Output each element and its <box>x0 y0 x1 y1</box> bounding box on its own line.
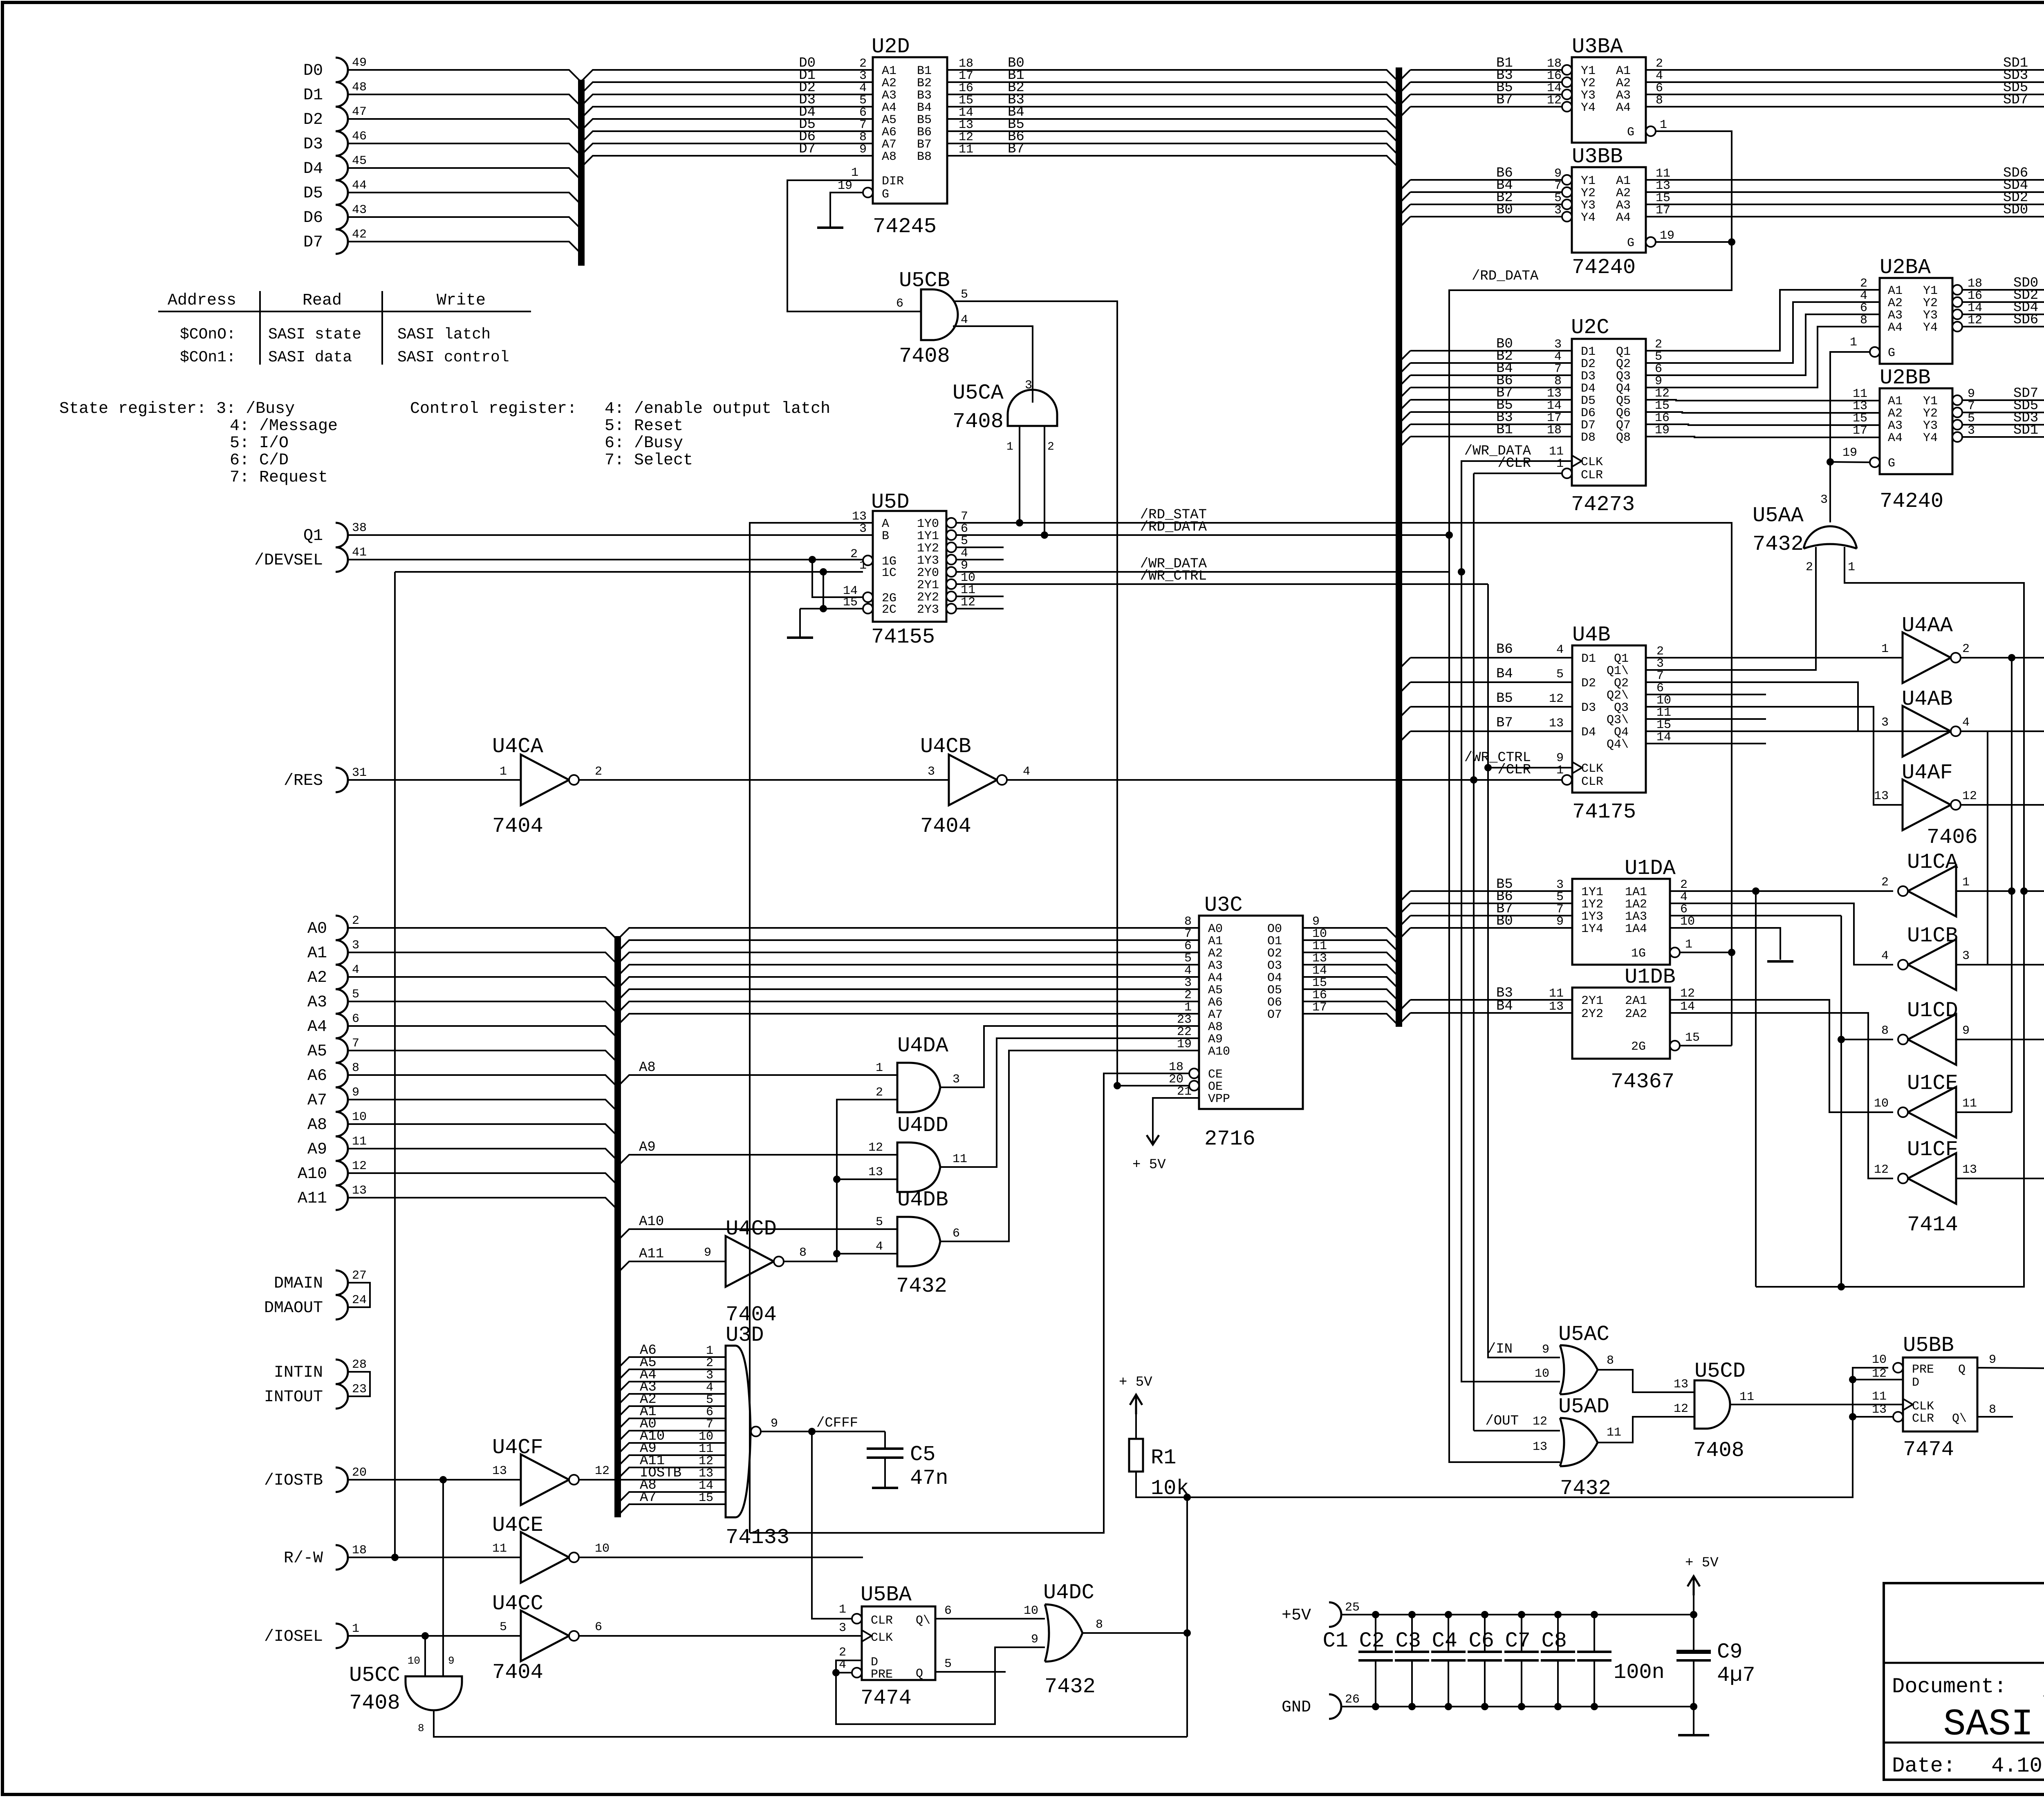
svg-text:A1: A1 <box>1616 64 1631 78</box>
svg-text:10: 10 <box>1656 694 1671 708</box>
wire bus exit U2C D7 <box>1399 424 1410 436</box>
svg-text:9: 9 <box>1031 1633 1038 1646</box>
svg-text:SASI Interface Card: SASI Interface Card <box>1943 1703 2044 1746</box>
wire U1CB in to C/D <box>1956 964 2044 965</box>
connector pin A7 (pin 9) <box>307 1086 359 1112</box>
wire U1DA in 3 <box>1410 915 1572 916</box>
svg-text:16: 16 <box>959 81 973 95</box>
svg-text:G: G <box>882 188 889 202</box>
label 74133 <box>726 1525 789 1550</box>
svg-text:38: 38 <box>352 521 367 535</box>
svg-text:U4AA: U4AA <box>1902 614 1953 638</box>
svg-text:4: 4 <box>1881 949 1889 963</box>
svg-text:B4: B4 <box>917 101 932 115</box>
wire U5CB pin5 <box>954 301 1117 1086</box>
label B6 pin 8 U2C <box>1496 373 1562 389</box>
svg-text:/CLR: /CLR <box>1497 456 1531 471</box>
svg-text:SASI control: SASI control <box>397 349 509 366</box>
junction U1DA 1G <box>1728 949 1735 956</box>
svg-text:9: 9 <box>771 1417 778 1431</box>
label pin 2 / SD1 U3BA <box>1656 56 2028 71</box>
pin 12 U5BB <box>1872 1367 1887 1381</box>
junction R1 <box>1183 1494 1191 1501</box>
label /OUT <box>1485 1413 1519 1429</box>
wire U4AF out to connector <box>1961 804 2044 806</box>
label D1 / pin 3 at U2D <box>799 68 867 83</box>
label pin 4 / SD3 U3BA <box>1656 68 2028 83</box>
svg-text:11: 11 <box>352 1135 367 1149</box>
pin 14 U4B <box>1656 730 1671 744</box>
svg-text:74240: 74240 <box>1572 255 1636 280</box>
junction 1C tie <box>820 568 827 576</box>
connector pin Q1 (pin 38) <box>303 521 367 547</box>
svg-text:5: 5 <box>961 288 968 302</box>
label 7408 U5CC <box>349 1691 400 1715</box>
wire U3BA in Y4 <box>1410 106 1562 108</box>
svg-text:9: 9 <box>352 1086 359 1100</box>
wire U3C O7 to bus <box>1303 1014 1399 1026</box>
label +5V C9 <box>1685 1555 1719 1571</box>
wire U5D 2Y2 stub <box>956 596 1004 597</box>
pin 2 U4AA <box>1962 642 1970 656</box>
svg-text:12: 12 <box>1655 387 1670 401</box>
svg-text:13: 13 <box>868 1165 883 1179</box>
svg-text:OE: OE <box>1208 1080 1223 1094</box>
svg-text:1G: 1G <box>1631 947 1646 961</box>
wire /CFFF down to U5BA CLR <box>812 1431 857 1619</box>
svg-text:6: 6 <box>859 106 867 120</box>
pin 19 U2C Q8 <box>1655 423 1670 437</box>
svg-text:1: 1 <box>1881 642 1889 656</box>
label 7432 U5AA <box>1753 532 1804 556</box>
wire 1G to 2G tie <box>812 560 863 597</box>
label U1DA <box>1625 856 1676 880</box>
wire R/-W to U4CE <box>348 1557 521 1558</box>
svg-text:1A2: 1A2 <box>1625 898 1647 912</box>
label 7404 U4CD <box>726 1303 777 1327</box>
label U2BB <box>1880 366 1931 390</box>
svg-text:6: 6 <box>896 297 903 311</box>
wire bus exit U1DB 2 <box>1399 1013 1410 1024</box>
pin 11 U2BB A1 <box>1853 387 1867 401</box>
connector pin DMAOUT (pin 24) <box>264 1293 367 1319</box>
label pin 17 / SD0 U3BB <box>1656 202 2028 218</box>
svg-text:16: 16 <box>1312 988 1327 1002</box>
pin 13 U4CF <box>492 1464 507 1478</box>
svg-text:12: 12 <box>1547 94 1562 108</box>
svg-text:7432: 7432 <box>896 1274 947 1298</box>
junction chain U4DB <box>833 1250 840 1257</box>
IC U3C 2716 EPROM <box>1189 916 1303 1109</box>
gate U4DA 7432 OR <box>897 1063 940 1112</box>
svg-text:A10: A10 <box>1208 1045 1230 1059</box>
svg-text:A8: A8 <box>307 1116 327 1134</box>
svg-text:A4: A4 <box>1888 431 1903 445</box>
svg-text:D6: D6 <box>1581 406 1596 420</box>
svg-text:9: 9 <box>1655 374 1662 388</box>
wire U1DA in 1 <box>1410 890 1572 892</box>
wire U5AA in2 from Q1bar <box>1646 547 1816 670</box>
svg-text:7: 7 <box>706 1418 713 1431</box>
svg-text:12: 12 <box>1533 1415 1547 1429</box>
wire U3C OE <box>1117 1085 1189 1086</box>
label 7414 U1C left <box>1907 1213 1958 1237</box>
pin 10 U4DC <box>1024 1604 1038 1618</box>
connector pin A0 (pin 2) <box>307 914 359 940</box>
svg-text:C6: C6 <box>1469 1629 1494 1653</box>
wire bus exit U2C D8 <box>1399 437 1410 448</box>
svg-text:GND: GND <box>1282 1698 1311 1717</box>
pin 2 U2BA A1 <box>1860 277 1867 291</box>
svg-text:4: 4 <box>1184 964 1192 978</box>
wire A9 to addr bus <box>348 1149 618 1161</box>
svg-text:B7: B7 <box>1496 715 1513 731</box>
svg-text:A6: A6 <box>307 1067 327 1085</box>
svg-text:U4CE: U4CE <box>492 1513 543 1537</box>
svg-text:14: 14 <box>1547 399 1562 413</box>
pin 6 U4CC <box>595 1620 602 1634</box>
svg-text:DMAOUT: DMAOUT <box>264 1299 323 1317</box>
wire U1CF out to 2A2 <box>1670 1013 1893 1178</box>
svg-text:A7: A7 <box>640 1490 657 1505</box>
wire to U3BB G <box>1656 241 1732 243</box>
svg-text:U1CF: U1CF <box>1907 1138 1958 1162</box>
svg-text:7432: 7432 <box>1753 532 1804 556</box>
label /RD_DATA <box>1140 520 1207 535</box>
svg-text:Y4: Y4 <box>1581 211 1596 225</box>
pin 6 U5BA <box>944 1604 952 1618</box>
svg-text:8: 8 <box>1860 314 1867 327</box>
svg-text:9: 9 <box>961 559 968 573</box>
svg-text:1: 1 <box>1006 441 1013 453</box>
bus B data center <box>1396 67 1402 1027</box>
gate U4AB 7406 inverter <box>1903 706 1961 757</box>
wire U3BA out A4 <box>1646 107 2044 119</box>
junction +5V C8 <box>1591 1611 1598 1618</box>
label B5 pin 3 U1DA <box>1496 877 1564 892</box>
svg-text:B5: B5 <box>1496 691 1513 706</box>
connector pin A6 (pin 8) <box>307 1061 359 1087</box>
pin 21 U3C VPP <box>1177 1085 1192 1099</box>
svg-text:74367: 74367 <box>1611 1070 1674 1094</box>
wire U3BA in Y1 <box>1410 69 1562 71</box>
ground at U2D G <box>817 226 843 229</box>
svg-text:7432: 7432 <box>1044 1675 1096 1699</box>
wire R1 vertical <box>1186 1497 1188 1737</box>
label B7 pin 13 U4B <box>1496 715 1564 731</box>
svg-text:8: 8 <box>1881 1024 1889 1038</box>
junction GND C1 <box>1372 1703 1379 1710</box>
pin 12 U4DD <box>868 1141 883 1155</box>
svg-text:6: 6 <box>1680 903 1688 916</box>
svg-text:7408: 7408 <box>1693 1438 1744 1463</box>
svg-text:13: 13 <box>1312 952 1327 965</box>
svg-text:D4: D4 <box>1581 382 1596 396</box>
svg-text:Q3\: Q3\ <box>1607 713 1629 727</box>
label A0 pin 7 U3D <box>640 1416 713 1432</box>
pin 4 U5CB <box>961 313 968 327</box>
gate U1CA 7414 inverter <box>1898 866 1956 916</box>
svg-text:G: G <box>1627 236 1634 250</box>
wire bus exit U1DA 3 <box>1399 916 1410 927</box>
svg-text:CLR: CLR <box>1912 1412 1934 1426</box>
pin 15 U1DB G <box>1685 1031 1700 1045</box>
connector pin A4 (pin 6) <box>307 1012 359 1038</box>
svg-text:U4AF: U4AF <box>1902 761 1953 785</box>
svg-text:2: 2 <box>1860 277 1867 291</box>
svg-text:1Y2: 1Y2 <box>1581 898 1603 912</box>
pin 1 U3C <box>1184 1001 1192 1015</box>
svg-text:47: 47 <box>352 105 367 119</box>
label U4DD <box>897 1113 948 1138</box>
svg-text:7474: 7474 <box>1903 1438 1954 1462</box>
pin 17 U2BB A4 <box>1853 424 1867 438</box>
IC U4B 74175 quad flip-flop <box>1562 645 1646 793</box>
svg-text:CLR: CLR <box>1581 775 1603 789</box>
pin 10 U3C O1 <box>1312 927 1327 941</box>
svg-text:+ 5V: + 5V <box>1119 1375 1152 1390</box>
svg-text:R/-W: R/-W <box>284 1549 323 1568</box>
svg-text:11: 11 <box>1549 445 1564 459</box>
label A10 pin 10 U3D <box>640 1429 713 1444</box>
wire U2C D1 in <box>1410 350 1572 352</box>
svg-text:4: 4 <box>1023 765 1030 779</box>
pin 17 U3C O7 <box>1312 1001 1327 1015</box>
svg-text:U5BA: U5BA <box>861 1583 912 1607</box>
wire U2C Q3 to U2BA A3 <box>1646 314 1880 375</box>
gate U5CB 7408 AND <box>921 289 958 340</box>
svg-text:/CFFF: /CFFF <box>816 1416 858 1431</box>
label B6 pin 9 U3BB <box>1496 166 1562 181</box>
gate U5AA 7432 OR <box>1804 526 1857 549</box>
junction GND C7 <box>1554 1703 1562 1710</box>
pin 3 U5BA <box>839 1621 846 1635</box>
svg-text:5: 5 <box>706 1393 713 1407</box>
wire U3C O5 to bus <box>1303 989 1399 1001</box>
label A11 line <box>639 1246 664 1262</box>
svg-text:74175: 74175 <box>1572 800 1636 824</box>
svg-text:State register: 3: /Busy: State register: 3: /Busy <box>59 400 295 418</box>
svg-text:4: 4 <box>961 547 968 560</box>
wire bus exit U4B D1 <box>1399 658 1410 669</box>
svg-text:A9: A9 <box>1208 1033 1223 1046</box>
label U4DB <box>897 1188 948 1212</box>
svg-text:INTIN: INTIN <box>274 1364 323 1382</box>
label 7474 U5BB <box>1903 1438 1954 1462</box>
svg-text:4: 4 <box>1962 716 1970 730</box>
svg-text:A2: A2 <box>882 76 896 90</box>
svg-text:Q: Q <box>916 1667 923 1681</box>
label U5AD <box>1558 1395 1609 1419</box>
wire U4AA out to connector <box>1961 657 2044 659</box>
svg-text:Y3: Y3 <box>1923 309 1938 323</box>
svg-text:74273: 74273 <box>1571 493 1635 517</box>
svg-text:18: 18 <box>1169 1060 1183 1074</box>
svg-text:B3: B3 <box>917 89 932 103</box>
pin 12 U1DB <box>1680 987 1695 1001</box>
svg-text:2: 2 <box>850 547 858 561</box>
label pin 12 / B6 net <box>959 129 1024 145</box>
wire addr bus A10 out <box>618 1229 897 1241</box>
wire bus exit U4B D2 <box>1399 682 1410 694</box>
wire U2C Q1 to U2BA A1 <box>1646 290 1880 351</box>
svg-text:Y2: Y2 <box>1923 407 1938 421</box>
wire bus exit U2C D4 <box>1399 388 1410 399</box>
label U2D <box>872 35 910 59</box>
svg-text:1Y2: 1Y2 <box>917 542 939 556</box>
wire U5AD out <box>1598 1417 1694 1443</box>
svg-text:Address: Address <box>168 291 236 310</box>
svg-text:3: 3 <box>839 1621 846 1635</box>
svg-text:5: 5 <box>1184 952 1192 965</box>
svg-text:31: 31 <box>352 766 367 780</box>
wire U2D B5 to B bus <box>947 119 1399 131</box>
svg-text:1Y3: 1Y3 <box>1581 910 1603 924</box>
wire U3BB out A3 <box>1646 204 2044 217</box>
wire U3BB in Y2 <box>1410 191 1562 193</box>
gate U4AA 7406 inverter <box>1903 632 1961 683</box>
svg-text:Q4: Q4 <box>1614 726 1629 739</box>
svg-text:Y3: Y3 <box>1581 199 1596 213</box>
label U4DA <box>897 1034 949 1058</box>
wire U2D B1 to B bus <box>947 70 1399 82</box>
label U4CA <box>492 735 544 759</box>
svg-text:D7: D7 <box>303 233 323 252</box>
pin 1 U1CA <box>1962 876 1970 889</box>
svg-text:O7: O7 <box>1267 1008 1282 1022</box>
pin 10 U4CE <box>595 1542 610 1556</box>
connector pin A5 (pin 7) <box>307 1037 359 1063</box>
IC U2C 74273 register <box>1562 339 1646 486</box>
svg-text:7408: 7408 <box>899 344 950 368</box>
svg-text:+ 5V: + 5V <box>1685 1555 1719 1571</box>
wire U2BB Y3 to SD bus <box>1962 425 2044 437</box>
svg-text:A1: A1 <box>1888 394 1903 408</box>
pin 3 U4AB <box>1881 716 1889 730</box>
svg-text:D1: D1 <box>303 86 323 105</box>
wire U2D DIR to U5CB in <box>787 180 921 311</box>
label U5AA <box>1753 504 1804 528</box>
svg-text:B7: B7 <box>1008 141 1024 157</box>
svg-text:2C: 2C <box>882 603 896 617</box>
svg-text:U5AC: U5AC <box>1558 1322 1609 1346</box>
gate U4CC 7404 inverter <box>521 1611 579 1661</box>
wire addr bus to U3D A6 <box>618 1357 726 1369</box>
wire U5D 1Y3 stub <box>956 559 1004 560</box>
wire A5 to addr bus <box>348 1051 618 1063</box>
junction /CLR riser <box>1470 776 1477 784</box>
pin 8 U5BB <box>1989 1403 1996 1417</box>
wire chain to U4DD in <box>837 1178 897 1180</box>
svg-text:PRE: PRE <box>1912 1363 1934 1377</box>
svg-text:U4CF: U4CF <box>492 1436 543 1460</box>
svg-text:2: 2 <box>706 1356 713 1370</box>
svg-text:A1: A1 <box>1616 174 1631 188</box>
svg-text:6: 6 <box>944 1604 952 1618</box>
junction /WR_DATA riser <box>1458 568 1465 576</box>
svg-text:16: 16 <box>1547 69 1562 83</box>
label 7474 U5BA <box>861 1686 912 1710</box>
title block frame <box>1884 1583 2044 1780</box>
label 7404 U4CB <box>920 814 971 838</box>
svg-text:10: 10 <box>1680 915 1695 929</box>
label U3D <box>726 1323 764 1347</box>
svg-text:D4: D4 <box>1581 726 1596 739</box>
svg-text:CLR: CLR <box>1581 468 1603 482</box>
label 74240 U2B <box>1880 489 1943 513</box>
wire U2C D8 in <box>1410 436 1572 437</box>
svg-text:B7: B7 <box>1496 92 1513 108</box>
power +5V arrow R1 <box>1130 1395 1142 1414</box>
svg-text:CLK: CLK <box>1581 455 1603 469</box>
wire U3C O3 to bus <box>1303 965 1399 977</box>
label B5 pin 14 U2C <box>1496 398 1562 413</box>
wire U2D B4 to B bus <box>947 107 1399 119</box>
label 74240 U3B <box>1572 255 1636 280</box>
ground C9 <box>1678 1734 1709 1736</box>
svg-text:3: 3 <box>1656 657 1664 671</box>
label U2BA <box>1880 255 1931 280</box>
svg-text:17: 17 <box>1547 411 1562 425</box>
svg-text:17: 17 <box>959 69 973 83</box>
svg-text:19: 19 <box>838 179 852 193</box>
label D6 / pin 8 at U2D <box>799 129 867 145</box>
wire addr bus to U3D A2 <box>618 1406 726 1418</box>
label pin 5 / SD3 U2BB <box>1968 410 2038 426</box>
svg-text:A3: A3 <box>1616 89 1631 103</box>
pin A wire label <box>0 0 0 0</box>
junction /IOSEL <box>421 1632 429 1640</box>
svg-text:7404: 7404 <box>492 814 543 838</box>
label D0 / pin 2 at U2D <box>799 56 867 71</box>
svg-text:8: 8 <box>418 1722 424 1734</box>
wire U5AA in1 <box>1756 547 2024 1287</box>
svg-text:O2: O2 <box>1267 947 1282 961</box>
svg-text:15: 15 <box>843 596 858 609</box>
wire U5CC in9 <box>442 1480 444 1676</box>
pin 3 U4B <box>1656 657 1664 671</box>
svg-text:5: 5 <box>859 94 867 108</box>
capacitor C9 4u7 <box>1676 1595 1755 1707</box>
junction +5V C3 <box>1445 1611 1452 1618</box>
table rule horizontal <box>158 311 531 312</box>
capacitor C4 100n <box>1432 1615 1502 1707</box>
label D3 / pin 5 at U2D <box>799 92 867 108</box>
wire U2C Q7 to U2BB A3 <box>1646 424 1880 425</box>
svg-text:6: 6 <box>1655 362 1662 376</box>
svg-text:44: 44 <box>352 179 367 193</box>
svg-text:2: 2 <box>1680 878 1688 892</box>
svg-text:2: 2 <box>876 1086 883 1100</box>
svg-text:A11: A11 <box>639 1246 664 1262</box>
svg-text:1: 1 <box>839 1603 846 1617</box>
wire U2C D4 in <box>1410 387 1572 388</box>
svg-text:C9: C9 <box>1717 1640 1742 1664</box>
svg-text:2: 2 <box>352 914 359 928</box>
svg-text:B0: B0 <box>1496 202 1513 218</box>
svg-text:1: 1 <box>1556 457 1564 471</box>
svg-text:9: 9 <box>1554 167 1562 181</box>
label U4CF <box>492 1436 543 1460</box>
svg-text:23: 23 <box>352 1382 367 1396</box>
svg-text:VPP: VPP <box>1208 1092 1230 1106</box>
wire A2 to addr bus <box>348 977 618 989</box>
wire bus exit U3BA Y4 <box>1399 107 1410 118</box>
svg-text:10: 10 <box>961 571 975 585</box>
svg-text:18: 18 <box>1547 57 1562 71</box>
pin 8 U5CC <box>418 1722 424 1734</box>
pin 13 U3C O3 <box>1312 952 1327 965</box>
